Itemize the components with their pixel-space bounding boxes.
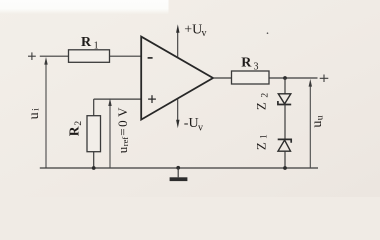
label u_u (310, 115, 325, 127)
wire: R3 to output terminal (269, 77, 318, 79)
svg-text:1: 1 (260, 134, 270, 139)
arrow -Uv supply (176, 99, 179, 129)
svg-text:R: R (67, 126, 82, 136)
svg-text:i: i (31, 108, 41, 111)
junction ground stub (176, 166, 180, 170)
resistor R3 (232, 71, 270, 84)
svg-text:u: u (310, 121, 325, 128)
svg-text:V: V (115, 107, 130, 117)
node: output junction (283, 76, 287, 80)
op-amp minus input label (148, 57, 153, 59)
svg-text:u: u (115, 146, 130, 153)
svg-text:Z: Z (253, 102, 268, 110)
ground (170, 168, 188, 181)
svg-text:u: u (315, 115, 325, 120)
svg-text:v: v (198, 123, 203, 134)
svg-text:R: R (241, 56, 252, 71)
zener diode Z1 (278, 139, 292, 168)
resistor R2 (87, 99, 101, 168)
svg-text:v: v (202, 28, 207, 39)
svg-text:+U: +U (184, 23, 202, 38)
node: input terminal plus sign (28, 52, 36, 60)
wire: op-amp output to R3 (213, 77, 232, 79)
svg-text:3: 3 (254, 62, 259, 73)
svg-text:2: 2 (74, 121, 84, 126)
label u_i (27, 108, 42, 120)
wire: R1 to op-amp inverting input (110, 55, 142, 57)
arrow u_i (44, 57, 47, 168)
label u_ref = 0V (115, 107, 130, 154)
label Z1 (253, 134, 269, 150)
junction R2-bottom rail (92, 166, 96, 170)
arrow u_ref (108, 98, 111, 168)
resistor R1 (69, 50, 110, 63)
label Z2 (253, 93, 270, 111)
op-amp U1 (141, 37, 213, 120)
svg-text:R: R (81, 35, 92, 50)
svg-text:0: 0 (115, 120, 130, 127)
white strip top-left (scan edge) (0, 0, 169, 14)
svg-text:Z: Z (253, 142, 268, 150)
svg-text:=: = (115, 128, 130, 135)
svg-text:ref: ref (120, 137, 130, 147)
arrow +Uv supply (176, 24, 179, 57)
node: output terminal plus sign (320, 75, 329, 83)
svg-text:2: 2 (260, 93, 270, 98)
svg-text:-U: -U (184, 116, 199, 131)
junction Z1-bottom rail (283, 166, 287, 170)
svg-text:1: 1 (94, 40, 99, 51)
wire: bottom rail (40, 167, 318, 169)
op-amp plus input label (148, 95, 156, 103)
speck (267, 32, 269, 34)
arrow u_u (309, 79, 312, 168)
label R2 (67, 121, 85, 137)
wire: R2 to op-amp non-inverting input (94, 98, 142, 100)
wire: input to R1 (40, 55, 69, 57)
svg-text:u: u (27, 112, 42, 119)
zener diode Z2 (278, 78, 291, 139)
